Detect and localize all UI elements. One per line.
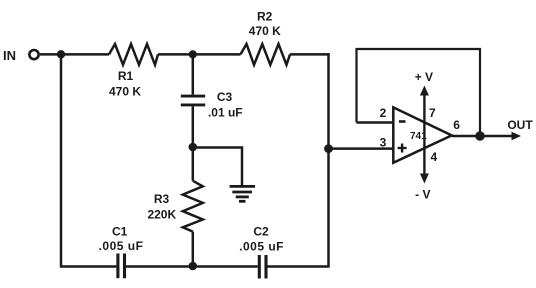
- wire: R1 to R2: [158, 53, 241, 56]
- wire: node B to ground: [193, 148, 242, 186]
- svg-text:470 K: 470 K: [249, 24, 281, 38]
- plus input sign: [398, 144, 407, 153]
- svg-text:C3: C3: [217, 90, 233, 104]
- wire: output with arrow: [452, 132, 521, 140]
- svg-text:470 K: 470 K: [109, 85, 141, 99]
- wire: node D to pin 3: [329, 147, 394, 150]
- resistor R2: [241, 44, 291, 65]
- capacitor C2: [259, 255, 266, 279]
- svg-text:C1: C1: [112, 225, 128, 239]
- svg-text:4: 4: [430, 150, 437, 164]
- svg-text:.005 uF: .005 uF: [99, 239, 144, 253]
- capacitor C3: [181, 54, 205, 147]
- svg-text:R1: R1: [118, 69, 134, 83]
- svg-text:+ V: + V: [415, 70, 433, 84]
- wire: pin 2: [357, 121, 394, 124]
- input terminal circle: [29, 50, 38, 59]
- wire: R2 to right corner: [290, 53, 330, 56]
- svg-text:OUT: OUT: [507, 118, 533, 132]
- resistor R3: [183, 181, 203, 232]
- svg-text:R2: R2: [257, 10, 273, 24]
- label R1 470 K: [109, 69, 141, 99]
- label C2 .005 uF: [239, 225, 284, 254]
- feedback wire box: [357, 49, 481, 133]
- wire: input to R1: [40, 53, 109, 56]
- node A: top of C3: [189, 50, 197, 58]
- svg-text:IN: IN: [3, 48, 16, 63]
- svg-text:7: 7: [429, 106, 436, 120]
- wire: bottom left segment: [61, 265, 116, 268]
- label R2 470 K: [249, 10, 281, 39]
- node B: C3 bottom junction: [189, 143, 198, 152]
- label C3 .01 uF: [208, 90, 243, 120]
- node C: bottom junction: [189, 262, 198, 271]
- label C1 .005 uF: [99, 225, 144, 254]
- svg-text:.01 uF: .01 uF: [208, 106, 243, 120]
- resistor R1: [109, 44, 158, 65]
- label R3 220K: [147, 192, 176, 222]
- minus input sign: [399, 120, 406, 123]
- wire: R3 to bottom: [192, 232, 195, 268]
- +V supply arrow: [420, 86, 429, 137]
- svg-text:- V: - V: [415, 188, 430, 202]
- wire: right vertical: [327, 53, 330, 267]
- wire: node B to R3: [192, 148, 195, 181]
- svg-text:R3: R3: [154, 192, 170, 206]
- svg-text:3: 3: [380, 136, 387, 150]
- wire: left vertical: [60, 54, 63, 267]
- ground: [230, 186, 255, 201]
- wire: bottom right segment: [268, 265, 329, 268]
- node D: non-inverting input node: [324, 144, 333, 153]
- op-amp U1 741: [393, 107, 451, 162]
- capacitor C1: [118, 254, 125, 279]
- wire: bottom middle segment: [126, 265, 258, 268]
- svg-text:C2: C2: [253, 225, 269, 239]
- svg-text:.005 uF: .005 uF: [239, 240, 284, 254]
- -V supply arrow: [420, 136, 429, 184]
- svg-text:6: 6: [453, 118, 460, 132]
- svg-text:220K: 220K: [147, 208, 176, 222]
- node: input junction: [57, 50, 65, 58]
- output node dot: [475, 131, 485, 141]
- svg-text:2: 2: [380, 106, 387, 120]
